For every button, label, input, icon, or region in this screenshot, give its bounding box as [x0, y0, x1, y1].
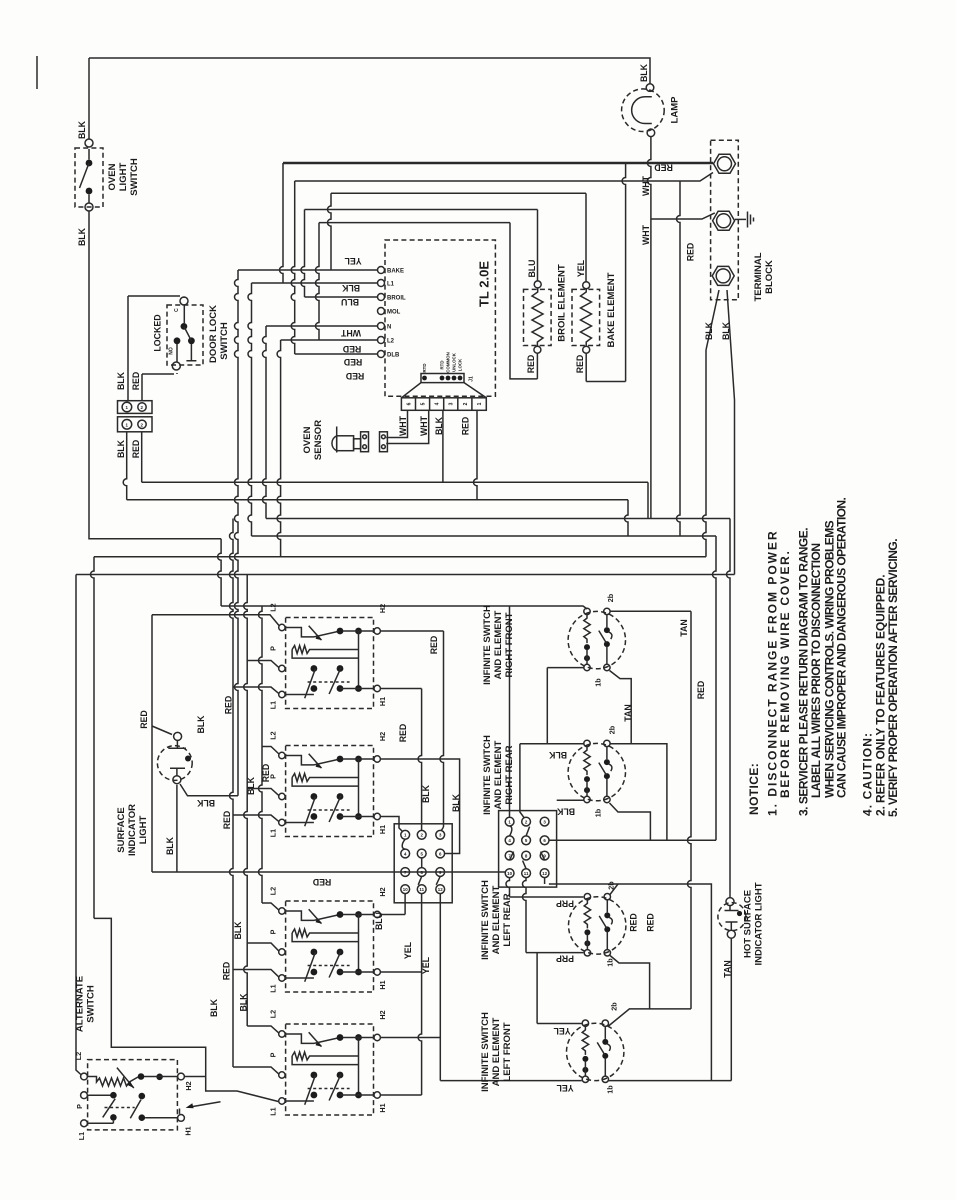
svg-text:RED: RED	[629, 913, 639, 932]
svg-text:INDICATOR: INDICATOR	[127, 804, 138, 856]
svg-text:HOT SURFACE: HOT SURFACE	[743, 890, 754, 958]
svg-text:BLOCK: BLOCK	[764, 260, 775, 294]
svg-text:RED: RED	[398, 724, 408, 743]
svg-text:DOOR LOCK: DOOR LOCK	[208, 305, 219, 363]
svg-text:WHT: WHT	[641, 224, 651, 245]
svg-text:BLK: BLK	[165, 836, 175, 855]
svg-text:J1: J1	[469, 376, 475, 382]
svg-text:AND ELEMENT: AND ELEMENT	[491, 886, 502, 955]
svg-text:RTD: RTD	[440, 360, 445, 369]
svg-text:WHT: WHT	[340, 328, 361, 338]
svg-text:RED: RED	[429, 636, 439, 655]
svg-text:RED: RED	[139, 710, 149, 729]
svg-text:2: 2	[463, 402, 469, 405]
svg-text:1b: 1b	[594, 678, 603, 687]
svg-text:L2: L2	[269, 731, 278, 739]
svg-text:BROIL: BROIL	[387, 296, 406, 302]
svg-text:ALTERNATE: ALTERNATE	[75, 976, 86, 1032]
svg-text:H2: H2	[378, 887, 387, 896]
svg-text:INFINITE SWITCH: INFINITE SWITCH	[482, 605, 493, 685]
svg-text:H1: H1	[378, 697, 387, 706]
svg-text:H2: H2	[184, 1081, 193, 1090]
svg-text:N: N	[387, 325, 391, 331]
svg-text:1: 1	[477, 402, 483, 405]
svg-text:YEL: YEL	[421, 956, 431, 974]
svg-text:TAN: TAN	[623, 704, 633, 721]
svg-text:P: P	[269, 929, 278, 934]
svg-text:L1: L1	[387, 282, 395, 288]
svg-text:BLK: BLK	[116, 439, 126, 458]
svg-text:BLK: BLK	[77, 120, 87, 139]
svg-text:RED: RED	[654, 162, 673, 172]
svg-text:L2: L2	[269, 603, 278, 611]
svg-text:L1: L1	[269, 829, 278, 837]
svg-text:BEFORE REMOVING WIRE COVER.: BEFORE REMOVING WIRE COVER.	[778, 549, 792, 798]
svg-text:RED: RED	[696, 681, 706, 700]
svg-text:TERMINAL: TERMINAL	[753, 252, 764, 301]
svg-text:BLK: BLK	[421, 784, 431, 803]
svg-text:OVEN: OVEN	[302, 426, 313, 453]
svg-text:INFINITE SWITCH: INFINITE SWITCH	[480, 1012, 491, 1092]
svg-text:L2: L2	[74, 1052, 83, 1060]
svg-text:YEL: YEL	[553, 1026, 571, 1036]
svg-text:PRP: PRP	[556, 899, 574, 909]
svg-text:TAN: TAN	[679, 619, 689, 636]
svg-text:BROIL ELEMENT: BROIL ELEMENT	[557, 264, 568, 342]
svg-text:2: 2	[140, 422, 143, 427]
svg-text:AND ELEMENT: AND ELEMENT	[491, 1018, 502, 1087]
svg-text:5. VERIFY PROPER OPERATION AFT: 5. VERIFY PROPER OPERATION AFTER SERVICI…	[886, 539, 900, 817]
svg-text:RED: RED	[461, 417, 471, 436]
svg-text:BLK: BLK	[116, 371, 126, 390]
svg-text:L2: L2	[269, 1010, 278, 1018]
svg-text:H1: H1	[378, 825, 387, 834]
svg-text:BLK: BLK	[246, 776, 256, 795]
svg-text:L1: L1	[269, 1107, 278, 1115]
svg-text:LAMP: LAMP	[670, 96, 681, 124]
svg-text:RED: RED	[224, 696, 234, 715]
svg-text:WHT: WHT	[641, 175, 651, 196]
svg-text:RED: RED	[131, 440, 141, 459]
svg-text:SWITCH: SWITCH	[219, 322, 230, 360]
svg-text:P: P	[269, 774, 278, 779]
svg-text:NO: NO	[169, 347, 175, 355]
svg-text:P: P	[269, 646, 278, 651]
svg-text:RED: RED	[222, 811, 232, 830]
svg-text:C: C	[174, 308, 180, 312]
svg-text:SWITCH: SWITCH	[129, 158, 140, 196]
svg-text:1b: 1b	[606, 1085, 615, 1094]
svg-text:WHT: WHT	[398, 415, 408, 436]
svg-text:4. CAUTION:: 4. CAUTION:	[860, 732, 874, 816]
svg-text:RED: RED	[575, 355, 585, 374]
svg-text:1b: 1b	[594, 808, 603, 817]
svg-text:1: 1	[125, 422, 128, 427]
svg-text:INFINITE SWITCH: INFINITE SWITCH	[480, 880, 491, 960]
svg-text:H2: H2	[378, 604, 387, 613]
svg-text:SURFACE: SURFACE	[116, 807, 127, 852]
svg-text:INFINITE SWITCH: INFINITE SWITCH	[482, 735, 493, 815]
svg-text:2b: 2b	[607, 881, 616, 890]
svg-text:TAN: TAN	[723, 960, 733, 977]
svg-text:NOTICE:: NOTICE:	[747, 763, 761, 815]
svg-text:AND ELEMENT: AND ELEMENT	[493, 741, 504, 810]
svg-text:BLK: BLK	[548, 750, 567, 760]
svg-text:RED: RED	[313, 877, 332, 887]
svg-text:RED: RED	[346, 371, 365, 381]
svg-text:3: 3	[449, 402, 455, 405]
svg-text:H1: H1	[184, 1126, 193, 1135]
svg-text:BLU: BLU	[374, 912, 384, 930]
svg-text:PRP: PRP	[556, 954, 574, 964]
svg-text:SWITCH: SWITCH	[86, 985, 97, 1023]
svg-text:6: 6	[406, 402, 412, 405]
svg-text:BLK: BLK	[77, 227, 87, 246]
svg-text:H2: H2	[378, 1010, 387, 1019]
svg-text:LOCK: LOCK	[458, 358, 463, 371]
svg-text:RED: RED	[221, 962, 231, 981]
svg-text:YEL: YEL	[344, 256, 362, 266]
svg-text:BLK: BLK	[639, 63, 649, 82]
svg-text:LEFT FRONT: LEFT FRONT	[502, 1022, 513, 1081]
svg-text:BLK: BLK	[721, 321, 731, 340]
svg-text:BLU: BLU	[341, 297, 359, 307]
svg-text:2b: 2b	[608, 725, 617, 734]
svg-text:BLK: BLK	[233, 921, 243, 940]
svg-text:UNLOCK: UNLOCK	[452, 352, 457, 372]
svg-text:LEFT REAR: LEFT REAR	[502, 893, 513, 946]
svg-text:YEL: YEL	[403, 941, 413, 959]
svg-text:INDICATOR LIGHT: INDICATOR LIGHT	[754, 882, 765, 965]
svg-text:BLU: BLU	[527, 259, 537, 277]
svg-text:CAN CAUSE IMPROPER AND DANGERO: CAN CAUSE IMPROPER AND DANGEROUS OPERATI…	[835, 498, 849, 798]
svg-text:DLB: DLB	[387, 353, 400, 359]
svg-text:OVEN: OVEN	[107, 163, 118, 190]
svg-text:COMMON: COMMON	[446, 352, 451, 373]
svg-text:BLK: BLK	[196, 715, 206, 734]
svg-text:RIGHT REAR: RIGHT REAR	[504, 745, 515, 804]
svg-text:RED: RED	[344, 357, 363, 367]
svg-text:P: P	[269, 1052, 278, 1057]
svg-text:L1: L1	[269, 984, 278, 992]
svg-text:LIGHT: LIGHT	[138, 816, 149, 845]
svg-text:H2: H2	[378, 732, 387, 741]
svg-text:1b: 1b	[606, 958, 615, 967]
svg-text:L1: L1	[269, 701, 278, 709]
svg-text:RED: RED	[526, 355, 536, 374]
svg-text:LABEL ALL WIRES PRIOR TO DISCO: LABEL ALL WIRES PRIOR TO DISCONNECTION	[809, 543, 823, 798]
svg-text:RED: RED	[343, 344, 362, 354]
svg-text:BLK: BLK	[341, 283, 360, 293]
svg-text:H1: H1	[378, 1103, 387, 1112]
svg-text:RED: RED	[686, 243, 696, 262]
svg-text:L2: L2	[269, 887, 278, 895]
svg-text:2b: 2b	[610, 1002, 619, 1011]
svg-text:2b: 2b	[606, 593, 615, 602]
svg-text:TL 2.0E: TL 2.0E	[477, 261, 492, 307]
svg-text:YEL: YEL	[576, 259, 586, 277]
svg-text:BLK: BLK	[704, 321, 714, 340]
svg-text:P: P	[75, 1104, 84, 1109]
svg-text:BLK: BLK	[451, 793, 461, 812]
svg-text:BLK: BLK	[209, 998, 219, 1017]
svg-text:RED: RED	[131, 372, 141, 391]
svg-text:SENSOR: SENSOR	[313, 420, 324, 460]
svg-text:L2: L2	[387, 339, 395, 345]
svg-text:H1: H1	[378, 980, 387, 989]
svg-text:5: 5	[421, 402, 427, 405]
svg-text:RTD: RTD	[422, 363, 427, 372]
svg-text:4: 4	[435, 402, 441, 405]
svg-text:RIGHT FRONT: RIGHT FRONT	[504, 612, 515, 677]
svg-text:2: 2	[140, 405, 143, 410]
svg-text:BAKE: BAKE	[387, 269, 404, 275]
svg-text:LIGHT: LIGHT	[118, 163, 129, 192]
svg-text:BLK: BLK	[239, 993, 249, 1012]
svg-text:BLK: BLK	[556, 806, 575, 816]
svg-text:L1: L1	[77, 1132, 86, 1140]
svg-text:BAKE ELEMENT: BAKE ELEMENT	[606, 272, 617, 347]
svg-text:WHT: WHT	[419, 415, 429, 436]
svg-text:RED: RED	[646, 913, 656, 932]
svg-text:YEL: YEL	[556, 1083, 574, 1093]
svg-text:BLK: BLK	[434, 416, 444, 435]
svg-text:BLK: BLK	[196, 798, 215, 808]
svg-text:1: 1	[125, 405, 128, 410]
svg-text:AND ELEMENT: AND ELEMENT	[493, 611, 504, 680]
svg-text:MOL: MOL	[387, 310, 401, 316]
svg-text:LOCKED: LOCKED	[153, 314, 163, 351]
